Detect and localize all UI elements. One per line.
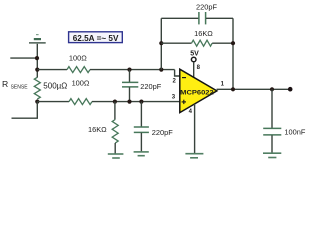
node feedback left 16k — [159, 41, 163, 45]
svg-text:100Ω: 100Ω — [72, 78, 90, 87]
svg-text:SENSE: SENSE — [11, 85, 29, 91]
node cap1 bottom — [127, 100, 131, 104]
wire 16k mid top lead — [114, 102, 116, 120]
blue callout box 62.5A =~ 5V — [69, 32, 123, 43]
svg-text:220pF: 220pF — [196, 2, 217, 11]
wire row1 right segment — [90, 69, 175, 71]
wire to left edge — [10, 57, 37, 59]
svg-text:16KΩ: 16KΩ — [194, 29, 213, 38]
capacitor C4 100nF — [263, 89, 281, 152]
node battery/left-edge junction — [35, 56, 39, 60]
svg-text:16KΩ: 16KΩ — [88, 125, 107, 134]
label RSENSE — [2, 79, 28, 90]
svg-text:4: 4 — [189, 109, 193, 115]
svg-text:500µΩ: 500µΩ — [43, 81, 67, 90]
plus sign pin 3 — [182, 100, 186, 104]
wire 16k mid bottom lead — [114, 143, 116, 154]
node feedback right 16k — [231, 41, 235, 45]
wire feedback right vertical — [232, 18, 234, 89]
wire row1 left segment — [37, 69, 67, 71]
node cap2 top — [139, 100, 143, 104]
svg-text:100nF: 100nF — [284, 128, 305, 137]
node 16k mid top — [113, 100, 117, 104]
ground under C4 — [263, 153, 281, 157]
resistor R1 100Ω row1 — [67, 67, 90, 73]
resistor R2 100Ω row2 — [69, 99, 92, 105]
resistor R4 16KΩ feedback — [161, 40, 233, 46]
wire row2 to bottom-left stub — [12, 102, 38, 119]
capacitor C3 220pF feedback — [161, 12, 233, 24]
resistor RSENSE 500uΩ — [34, 77, 40, 99]
node row1 left — [35, 68, 39, 72]
svg-text:100Ω: 100Ω — [69, 54, 87, 63]
node 100nF/output junction — [270, 87, 274, 91]
ground pin4 — [185, 154, 203, 158]
node cap1 top — [127, 68, 131, 72]
node row1 feedback junction — [159, 68, 163, 72]
ground under 16k — [108, 154, 124, 158]
wire row2 left segment — [37, 101, 69, 103]
node row2 left — [35, 100, 39, 104]
capacitor C1 220pF between rows — [122, 70, 138, 102]
ground under C2 — [134, 152, 149, 156]
wire pin2 step — [175, 70, 180, 76]
op-amp U1 MCP6022 — [180, 69, 217, 112]
wire output row — [217, 88, 289, 90]
svg-text:2: 2 — [173, 79, 177, 85]
wire battery down — [36, 44, 38, 78]
svg-text:R: R — [2, 79, 8, 89]
svg-text:62.5A =~ 5V: 62.5A =~ 5V — [73, 34, 119, 43]
supply terminal circle — [191, 57, 196, 62]
minus sign pin 2 — [182, 77, 186, 79]
capacitor C2 220pF to ground — [134, 102, 149, 152]
svg-text:3: 3 — [172, 95, 176, 101]
svg-text:8: 8 — [197, 65, 201, 71]
wire row2 right segment — [92, 101, 180, 103]
svg-text:MCP6022: MCP6022 — [180, 90, 214, 97]
battery B1 — [29, 35, 46, 43]
svg-text:1: 1 — [221, 81, 225, 87]
wire feedback left vertical — [160, 18, 162, 69]
resistor R3 16KΩ to ground — [112, 120, 118, 144]
output terminal dot — [288, 87, 293, 92]
node feedback/output junction — [231, 87, 235, 91]
wire 5V to pin 8 — [193, 62, 195, 79]
svg-text:220pF: 220pF — [152, 128, 173, 137]
svg-text:220pF: 220pF — [140, 82, 161, 91]
wire pin4 down — [194, 104, 196, 153]
